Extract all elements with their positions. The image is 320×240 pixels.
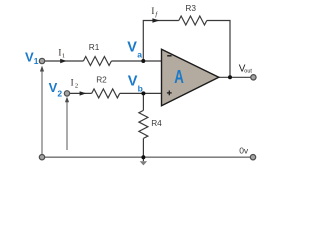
svg-text:V: V [127,40,137,56]
svg-text:A: A [174,67,184,87]
svg-text:0v: 0v [239,146,249,156]
svg-text:a: a [137,50,142,60]
svg-text:1: 1 [34,56,39,66]
svg-text:I: I [151,6,154,16]
svg-text:out: out [244,69,252,75]
svg-text:I: I [71,77,74,87]
svg-text:R2: R2 [96,75,107,85]
svg-text:1: 1 [62,53,65,60]
svg-text:R3: R3 [185,3,196,13]
svg-text:R4: R4 [151,118,162,128]
svg-text:V: V [49,80,58,95]
svg-text:b: b [138,83,143,93]
svg-text:2: 2 [75,83,78,90]
svg-text:2: 2 [57,89,62,99]
svg-text:R1: R1 [89,42,100,52]
svg-text:V: V [128,74,138,90]
svg-text:V: V [25,49,34,64]
